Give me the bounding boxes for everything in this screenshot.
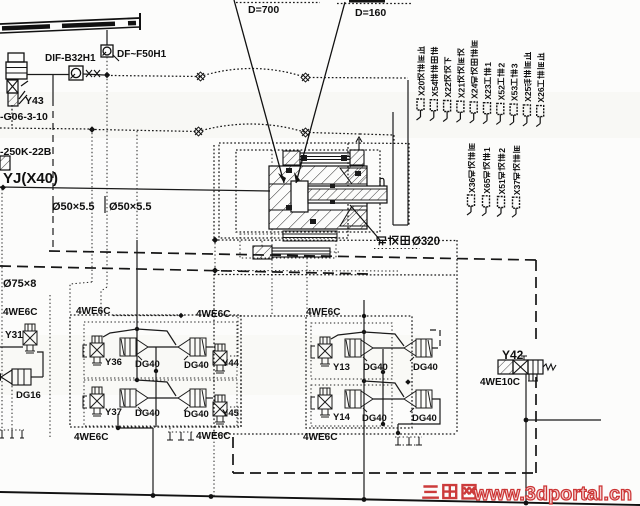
svg-text:4WE6C: 4WE6C: [3, 307, 37, 318]
pilot line (dashed) down 2: [52, 216, 54, 248]
DG40 valve: [120, 389, 148, 411]
wire along box bottom: [118, 427, 153, 429]
wire rail to DF-F50H1: [106, 30, 108, 45]
svg-text:DIF-B32H1: DIF-B32H1: [45, 53, 96, 64]
node mid right: [405, 379, 411, 385]
main wire down to left group: [136, 240, 138, 329]
svg-text:-G06-3-10: -G06-3-10: [0, 111, 48, 123]
box outer right: [456, 240, 458, 433]
svg-text:D=700: D=700: [248, 4, 279, 16]
label underline: [374, 248, 420, 250]
wire node P1 to hose 1: [111, 76, 200, 77]
junction mid link1: [381, 370, 385, 374]
svg-text:X25: X25: [523, 86, 533, 102]
node T1: [89, 126, 95, 132]
limit switch X20: [417, 99, 425, 120]
svg-text:4WE6C: 4WE6C: [306, 307, 340, 318]
svg-text:Ø50×5.5: Ø50×5.5: [52, 201, 95, 213]
tie rod nuts: [301, 155, 307, 161]
wire between cones: [373, 398, 404, 400]
cylinder top bracket: [283, 150, 364, 165]
limit switch X65: [482, 196, 490, 216]
svg-text:www.3dportal.cn: www.3dportal.cn: [473, 483, 632, 505]
svg-text:Ø50×5.5: Ø50×5.5: [109, 201, 152, 213]
DG40 valve: [178, 338, 206, 360]
wire junction to cone mid2: [364, 381, 404, 397]
solenoid: [213, 395, 227, 424]
svg-text:DG40: DG40: [184, 360, 209, 371]
hose 2 end fittings: [194, 127, 310, 137]
wire jog to left valve box: [70, 282, 92, 315]
svg-text:DG40: DG40: [412, 413, 437, 424]
junction mid bottom: [396, 431, 400, 435]
wire Y45 down: [230, 407, 238, 428]
wire junction to right cone: [137, 329, 176, 345]
solenoid: [90, 387, 104, 416]
rod guide bottom: [393, 224, 408, 226]
wire branch down from supply: [52, 74, 54, 99]
svg-text:Ø75×8: Ø75×8: [3, 278, 36, 290]
svg-text:2: 2: [497, 148, 507, 153]
wire pilot down left of box: [49, 295, 51, 437]
valve group box left (4WE6C): [70, 315, 241, 427]
limit switch X37: [512, 197, 520, 217]
wire between box labels: [232, 315, 305, 317]
wire Y43 to return line: [11, 105, 13, 128]
wire row1-row2: [136, 329, 138, 380]
junction bottom box1: [116, 426, 120, 430]
wire DIF-B32H1 to node: [83, 74, 104, 75]
DG40 valve: [345, 339, 373, 361]
limit switch X52: [496, 103, 504, 124]
svg-text:Y13: Y13: [333, 362, 350, 373]
wire DG16 out: [31, 376, 43, 378]
svg-text:X53: X53: [510, 86, 520, 102]
wire left edge down 2: [1, 267, 3, 437]
node P1: [104, 72, 110, 78]
machine boundary right edge upper: [535, 260, 537, 345]
limit switch X26: [536, 106, 544, 127]
wire M1 to right box: [218, 239, 457, 242]
junction tank 3: [362, 497, 367, 502]
limit switch X21: [456, 101, 464, 122]
wire to right solenoid: [206, 397, 213, 399]
wire DG16 drain: [11, 386, 13, 430]
svg-text:1: 1: [482, 147, 492, 152]
dotted frame bottom bracket: [240, 234, 336, 258]
throttle marks: [86, 70, 100, 77]
solenoid: [318, 388, 332, 417]
drain box left: [0, 430, 24, 438]
svg-text:X54: X54: [430, 81, 440, 97]
wire box to tank line: [213, 434, 215, 496]
svg-text:4WE6C: 4WE6C: [196, 431, 230, 442]
wire rows link: [155, 371, 157, 427]
svg-text:3: 3: [510, 63, 520, 68]
piston: [291, 181, 308, 212]
main vertical wire middle: [363, 300, 365, 500]
limit switch X36: [467, 195, 475, 215]
wire to Y31: [0, 346, 23, 348]
junction mid link2: [381, 422, 385, 426]
pipe size tick 1: [52, 196, 54, 213]
label cylinder 320: [377, 236, 440, 248]
sub-box row1: [84, 322, 237, 378]
svg-text:4WE6C: 4WE6C: [303, 432, 337, 443]
fitting (pump port): [6, 53, 27, 79]
node M2: [212, 267, 218, 273]
wire junction to cone mid1: [364, 332, 404, 346]
wire hose 2 right: [309, 133, 360, 135]
svg-text:X20: X20: [417, 80, 427, 96]
svg-text:X65: X65: [482, 178, 492, 194]
pipe size tick 2: [104, 196, 106, 213]
flexible hose 1: [200, 68, 306, 77]
DG40 valve: [404, 390, 432, 412]
solenoid: [318, 337, 332, 366]
svg-text:1: 1: [483, 62, 493, 67]
svg-text:X23: X23: [483, 84, 493, 100]
svg-text:X51: X51: [497, 179, 507, 195]
rod guide line left: [392, 112, 394, 225]
svg-text:X37: X37: [512, 180, 522, 196]
svg-text:4WE6C: 4WE6C: [196, 309, 230, 320]
wire Y31 to DG16: [37, 352, 43, 377]
limit switch X51: [497, 197, 505, 217]
machine boundary dash line upper: [49, 251, 536, 260]
flexible hose 2: [198, 124, 306, 133]
wire mid rows link: [382, 349, 384, 424]
limit switch X25: [523, 105, 531, 126]
node on box top: [178, 313, 184, 319]
check valve DIF-B32H1: [69, 66, 83, 80]
svg-text:D=160: D=160: [355, 7, 386, 19]
wire P branch down: [106, 131, 108, 287]
box outer left: [213, 274, 215, 434]
tank line: [0, 492, 640, 505]
cylinder enclosure top right: [348, 142, 409, 145]
svg-text:X22: X22: [443, 82, 453, 98]
seals: [286, 168, 292, 173]
drain box below box1: [167, 432, 194, 440]
DG40 valve: [404, 339, 432, 361]
wire fitting to DIF-B32H1: [27, 74, 69, 76]
return line left: [0, 128, 90, 129]
DG40 valve: [120, 338, 148, 360]
wire DF-F50H1 down: [106, 57, 108, 75]
svg-text:Y37: Y37: [105, 407, 122, 418]
wire junction2 to right cone: [137, 380, 176, 396]
wire mid row2 out: [398, 399, 440, 424]
valve group box middle (4WE6C): [306, 316, 412, 428]
machine boundary dash line lower: [0, 266, 368, 274]
wire T1 down: [91, 129, 93, 282]
svg-text:DG40: DG40: [413, 362, 438, 373]
drain box below box2: [395, 437, 422, 445]
svg-text:DG40: DG40: [184, 409, 209, 420]
box outer bottom: [214, 433, 457, 435]
cylinder bottom rows: [283, 231, 337, 241]
svg-text:YJ(X40): YJ(X40): [3, 170, 58, 187]
svg-text:X52: X52: [496, 85, 506, 101]
piercing cylinder outer dotted enclosure: [219, 143, 348, 238]
junction row1 out: [154, 369, 158, 373]
wire to cylinder box: [360, 134, 394, 143]
rod guide line right: [407, 80, 409, 225]
machine boundary right edge lower: [535, 377, 537, 473]
wire mid row1 right dash: [428, 330, 440, 348]
node on main line: [0, 185, 6, 191]
leader to cylinder label: [350, 205, 380, 240]
wire left edge down: [1, 189, 3, 267]
svg-text:4WE6C: 4WE6C: [76, 306, 110, 317]
arrow up: [356, 137, 362, 150]
check valve DF-F50H1: [101, 45, 113, 57]
valve Y43: [7, 80, 28, 106]
svg-text:Y36: Y36: [105, 357, 122, 368]
piston rod: [308, 186, 387, 203]
DG40 valve: [178, 389, 206, 411]
wire cylinder to middle box a: [271, 229, 273, 316]
pilot wire down to left group (dotted): [136, 131, 138, 240]
svg-text:Y14: Y14: [333, 412, 351, 423]
svg-text:Y31: Y31: [5, 330, 23, 341]
node M1: [212, 237, 218, 243]
wire junction to Y36: [103, 329, 137, 337]
svg-text:-250K-22B: -250K-22B: [0, 146, 52, 158]
pressure gauge -250K-22B: [0, 156, 10, 170]
main pressure line to cylinder: [0, 187, 270, 191]
sub-box mid row1: [311, 323, 392, 379]
machine boundary bottom: [233, 472, 536, 474]
cylinder enclosure right edge: [408, 143, 410, 225]
cut-off text above D160: [349, 0, 385, 3]
cylinder enclosure left edge: [213, 145, 215, 240]
junction mid box top: [362, 314, 366, 318]
wire jog to left valve box 2: [101, 287, 107, 316]
wire cylinder enclosure stub top: [271, 150, 273, 166]
junction Y42 branch: [524, 418, 529, 423]
valve DG16: [0, 369, 31, 385]
box outer top: [214, 274, 457, 277]
limit switch X53: [510, 104, 517, 125]
dim line D700: [236, 2, 320, 4]
junction mid row2: [362, 379, 366, 383]
wire box1 to tank line: [152, 428, 154, 497]
wire M1-M2: [214, 243, 216, 268]
wire bottom bracket right: [330, 251, 340, 253]
wire junction to Y13: [331, 332, 364, 339]
junction tank 4: [524, 501, 529, 506]
wire Y42 down to tank line: [525, 374, 527, 503]
svg-text:2: 2: [496, 62, 506, 67]
wire row1 down: [155, 347, 157, 371]
svg-text:X26: X26: [536, 87, 546, 103]
dim line D160: [337, 3, 412, 5]
hose 1 end fittings: [196, 72, 310, 82]
cylinder body: [269, 166, 387, 229]
DG40 valve: [345, 390, 373, 412]
solenoid: [90, 336, 104, 365]
wire node P1 down: [106, 75, 108, 129]
svg-text:X21: X21: [456, 83, 466, 99]
limit switch X22: [443, 101, 451, 122]
directional valve Y42 4WE10C: [498, 356, 556, 381]
cylinder bottom bracket: [253, 246, 330, 259]
svg-text:4WE10C: 4WE10C: [480, 377, 520, 388]
wire hose 1 to cylinder head box: [309, 77, 408, 80]
junction tank 1: [151, 493, 156, 498]
sub-box row2: [84, 380, 237, 426]
wire Y44 up to box edge: [230, 316, 238, 356]
pilot line (dashed) down: [52, 99, 54, 193]
wire cylinder to middle box b: [306, 258, 308, 316]
leader line D=160: [296, 2, 345, 183]
wire between cones: [148, 346, 178, 348]
wire between cones: [148, 397, 178, 399]
leader line D=700: [234, 0, 284, 183]
svg-text:X36: X36: [467, 177, 477, 193]
gland hatch right: [340, 168, 367, 184]
svg-text:DF~F50H1: DF~F50H1: [117, 49, 167, 60]
wire M2 right: [218, 270, 400, 273]
supply rail: [0, 13, 140, 33]
sub-box mid row2: [311, 385, 392, 426]
svg-text:X24: X24: [470, 83, 480, 99]
svg-text:4WE6C: 4WE6C: [74, 432, 108, 443]
junction tank 2: [209, 494, 214, 499]
junction row1: [135, 327, 139, 331]
limit switch X54: [430, 100, 438, 121]
solenoid: [213, 344, 227, 373]
svg-text:Ø320: Ø320: [412, 236, 440, 248]
solenoid valve Y31: [23, 324, 37, 353]
wire to right solenoid: [206, 346, 213, 348]
limit switch X23: [483, 103, 491, 124]
wire Y42 branch right: [526, 419, 601, 421]
machine boundary left stub: [232, 437, 234, 473]
svg-text:DG16: DG16: [16, 390, 41, 401]
return line to hose 2: [95, 130, 198, 132]
wire body to bottom bracket: [261, 241, 263, 246]
watermark: [423, 485, 475, 498]
box1 right inner edge: [240, 349, 242, 427]
junction row2: [135, 378, 139, 382]
junction mid row1: [362, 330, 366, 334]
svg-text:Y43: Y43: [25, 95, 44, 107]
wire between cones: [373, 347, 404, 349]
limit switch X24: [470, 102, 478, 123]
